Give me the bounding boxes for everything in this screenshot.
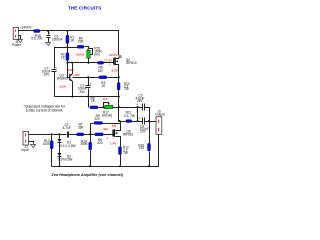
svg-text:9.1V, 0.5W: 9.1V, 0.5W: [60, 144, 75, 148]
capacitor C2 4.7uF: [63, 123, 71, 137]
resistor R11 2.2 7W: [124, 111, 135, 123]
svg-text:(lin): (lin): [94, 53, 99, 57]
svg-text:1.4V: 1.4V: [110, 142, 117, 146]
diode D2 9.1V zener: [58, 153, 73, 167]
svg-text:33K: 33K: [78, 126, 84, 130]
resistor R4 20K: [77, 36, 84, 48]
svg-text:+: +: [49, 32, 51, 36]
node D1 top: [58, 133, 60, 135]
wire R8 left lead: [88, 97, 90, 108]
resistor R14 100K: [80, 135, 91, 167]
node pot bottom: [88, 62, 90, 64]
ground (C6): [46, 43, 51, 46]
wire C3 to right col: [145, 108, 150, 122]
node rail bottom: [118, 120, 120, 122]
node C1 bottom: [87, 96, 89, 98]
node R17 wiper tie: [102, 106, 104, 108]
connector J2 Input: [22, 131, 29, 152]
svg-text:BIAS: BIAS: [77, 53, 84, 57]
node R12 gnd: [119, 165, 121, 167]
wire top rail: [41, 31, 119, 56]
wire R6 to Q6 gate: [104, 134, 113, 136]
wire R8 to pot R17: [99, 107, 105, 109]
resistor R18 5.6 2W: [31, 30, 42, 41]
wire input row: [29, 134, 67, 136]
svg-text:2N3906: 2N3906: [57, 76, 68, 80]
svg-text:2.2, 7W: 2.2, 7W: [124, 114, 135, 118]
capacitor C1 100uF: [78, 78, 92, 97]
resistor R8 1K: [90, 96, 98, 108]
resistor R13 100K: [43, 135, 53, 167]
node row97-rail: [118, 96, 120, 98]
node rail-R1: [66, 30, 68, 32]
ground (power): [18, 40, 23, 43]
node R14 gnd: [89, 165, 91, 167]
wire R9 to drain col: [103, 122, 121, 124]
svg-text:IRF610: IRF610: [126, 61, 137, 65]
wire R3 to rail: [108, 77, 119, 79]
resistor R2 1K: [61, 52, 69, 60]
svg-text:11v: 11v: [103, 127, 108, 131]
resistor R16 470: [138, 122, 150, 167]
test point circle at Q4 drain: [119, 56, 121, 58]
svg-text:25V: 25V: [137, 99, 143, 103]
svg-text:8.6: 8.6: [103, 97, 108, 101]
wire power low pin to ground: [19, 36, 21, 40]
wire R1 to R2: [67, 44, 69, 53]
potentiometer R17 gain: [102, 103, 113, 118]
node C3 left col join: [137, 106, 139, 108]
node Q3 collector: [71, 62, 73, 64]
svg-text:220: 220: [94, 117, 99, 121]
svg-text:25v: 25v: [80, 90, 85, 94]
node R3 feedback: [118, 76, 120, 78]
wire bootstrap row: [55, 48, 68, 69]
svg-text:5.6, 2W: 5.6, 2W: [31, 37, 42, 41]
resistor R6 220: [95, 133, 104, 145]
connector J4 Power: [12, 27, 21, 46]
svg-text:Power: Power: [12, 43, 21, 47]
wire input jack low pin to ground: [29, 142, 34, 144]
svg-text:5.9: 5.9: [112, 124, 117, 128]
node D2 gnd: [58, 165, 60, 167]
wire R5 to Q4 gate: [104, 62, 114, 64]
svg-text:25V: 25V: [140, 130, 146, 134]
wire C2 to R7: [69, 134, 77, 136]
wire rowD mid node: [119, 121, 126, 123]
svg-text:+10V: +10V: [72, 73, 80, 77]
wire Q3 emitter row to R3: [73, 77, 99, 79]
svg-text:22.4V: 22.4V: [109, 53, 118, 57]
wire R11 to C4: [132, 121, 143, 123]
svg-text:9.2V: 9.2V: [60, 85, 67, 89]
node rowC-rail: [118, 106, 120, 108]
svg-text:+: +: [55, 66, 57, 70]
svg-text:THE CIRCUITS: THE CIRCUITS: [68, 5, 101, 10]
wire Q4 source down rail: [118, 67, 120, 83]
wire jack bottom to ground row: [158, 135, 160, 167]
column C3C4 left join: [137, 108, 139, 122]
svg-text:G: G: [109, 65, 111, 67]
svg-text:4.7uF: 4.7uF: [63, 126, 71, 130]
node C1 top: [87, 76, 89, 78]
svg-text:20K: 20K: [78, 39, 84, 43]
node right col joins: [148, 120, 150, 122]
svg-text:2200uF: 2200uF: [52, 37, 63, 41]
resistor R12 2.2 7W: [119, 146, 130, 155]
wire ground row: [52, 166, 159, 168]
wire rail below R10: [118, 91, 120, 122]
potentiometer R15 100R bias: [87, 46, 103, 58]
svg-text:220: 220: [97, 141, 102, 145]
wire R2 to Q3 base: [68, 61, 70, 78]
svg-text:9.9V: 9.9V: [68, 68, 75, 72]
svg-text:9.1V/0.5W: 9.1V/0.5W: [58, 158, 73, 162]
node gate: [89, 133, 91, 135]
node Q3 emitter col: [71, 96, 73, 98]
svg-text:Input: Input: [22, 148, 29, 152]
resistor R1 1K: [66, 31, 75, 44]
transistor Q4 IRF610: [113, 57, 137, 66]
capacitor C7 100uF bootstrap: [42, 66, 57, 97]
transistor Q3 2N3906: [57, 63, 73, 97]
svg-text:1K(GA): 1K(GA): [102, 114, 112, 118]
node C4 left col join: [137, 120, 139, 122]
wire R4 to pot wiper arrow: [85, 47, 89, 49]
wire pot to gate row: [88, 59, 90, 63]
capacitor C6 2200uF: [47, 31, 63, 43]
wire C4 to output jack: [145, 121, 157, 123]
wire rowC rail to C3: [119, 107, 143, 109]
svg-text:a bias current of 250mA.: a bias current of 250mA.: [26, 109, 63, 113]
svg-text:+: +: [138, 117, 140, 121]
capacitor C3 470uF: [136, 93, 145, 110]
node R1R2: [66, 46, 68, 48]
resistor R7 33K: [77, 123, 85, 136]
capacitor C4 470uF: [138, 117, 149, 134]
svg-text:G: G: [107, 138, 109, 140]
svg-text:17.2V: 17.2V: [104, 58, 113, 62]
svg-text:470: 470: [139, 146, 144, 150]
svg-text:7W: 7W: [124, 87, 129, 91]
node R16 gnd: [148, 165, 150, 167]
svg-text:220: 220: [98, 69, 103, 73]
node gate row left: [66, 62, 68, 64]
wire power to R18: [19, 30, 34, 32]
wire R7 to gate node: [84, 134, 95, 136]
resistor R9 220: [91, 114, 103, 124]
node R13 top: [51, 133, 53, 135]
svg-text:Zen Headphone Amplifier (one c: Zen Headphone Amplifier (one channel): [51, 173, 124, 177]
wire gate row: [68, 62, 98, 64]
ground (input): [31, 145, 36, 148]
svg-text:Output: Output: [155, 113, 165, 117]
wire pot R17 to rail: [113, 107, 119, 109]
svg-text:100K: 100K: [43, 142, 51, 146]
svg-text:IRF510: IRF510: [123, 132, 134, 136]
svg-text:+24VDC: +24VDC: [20, 25, 33, 29]
svg-text:6.2V: 6.2V: [112, 68, 119, 72]
resistor R5 220: [97, 61, 103, 73]
wire node to R4: [68, 47, 78, 48]
svg-text:+: +: [90, 82, 92, 86]
resistor R10 2.2 7W vertical: [117, 82, 130, 91]
wire R9 left col down to gate row: [90, 124, 92, 135]
node rail-C6: [47, 30, 49, 32]
svg-text:7W: 7W: [123, 151, 128, 155]
svg-text:100K: 100K: [80, 142, 88, 146]
svg-text:25V: 25V: [44, 73, 50, 77]
wire row97: [55, 96, 119, 98]
wire R12 to ground row: [120, 155, 122, 167]
connector J3 Output: [155, 110, 165, 135]
resistor R3 1K: [99, 76, 107, 88]
diode D1 9.1V zener: [58, 135, 76, 154]
transistor Q6 IRF510: [112, 124, 133, 147]
